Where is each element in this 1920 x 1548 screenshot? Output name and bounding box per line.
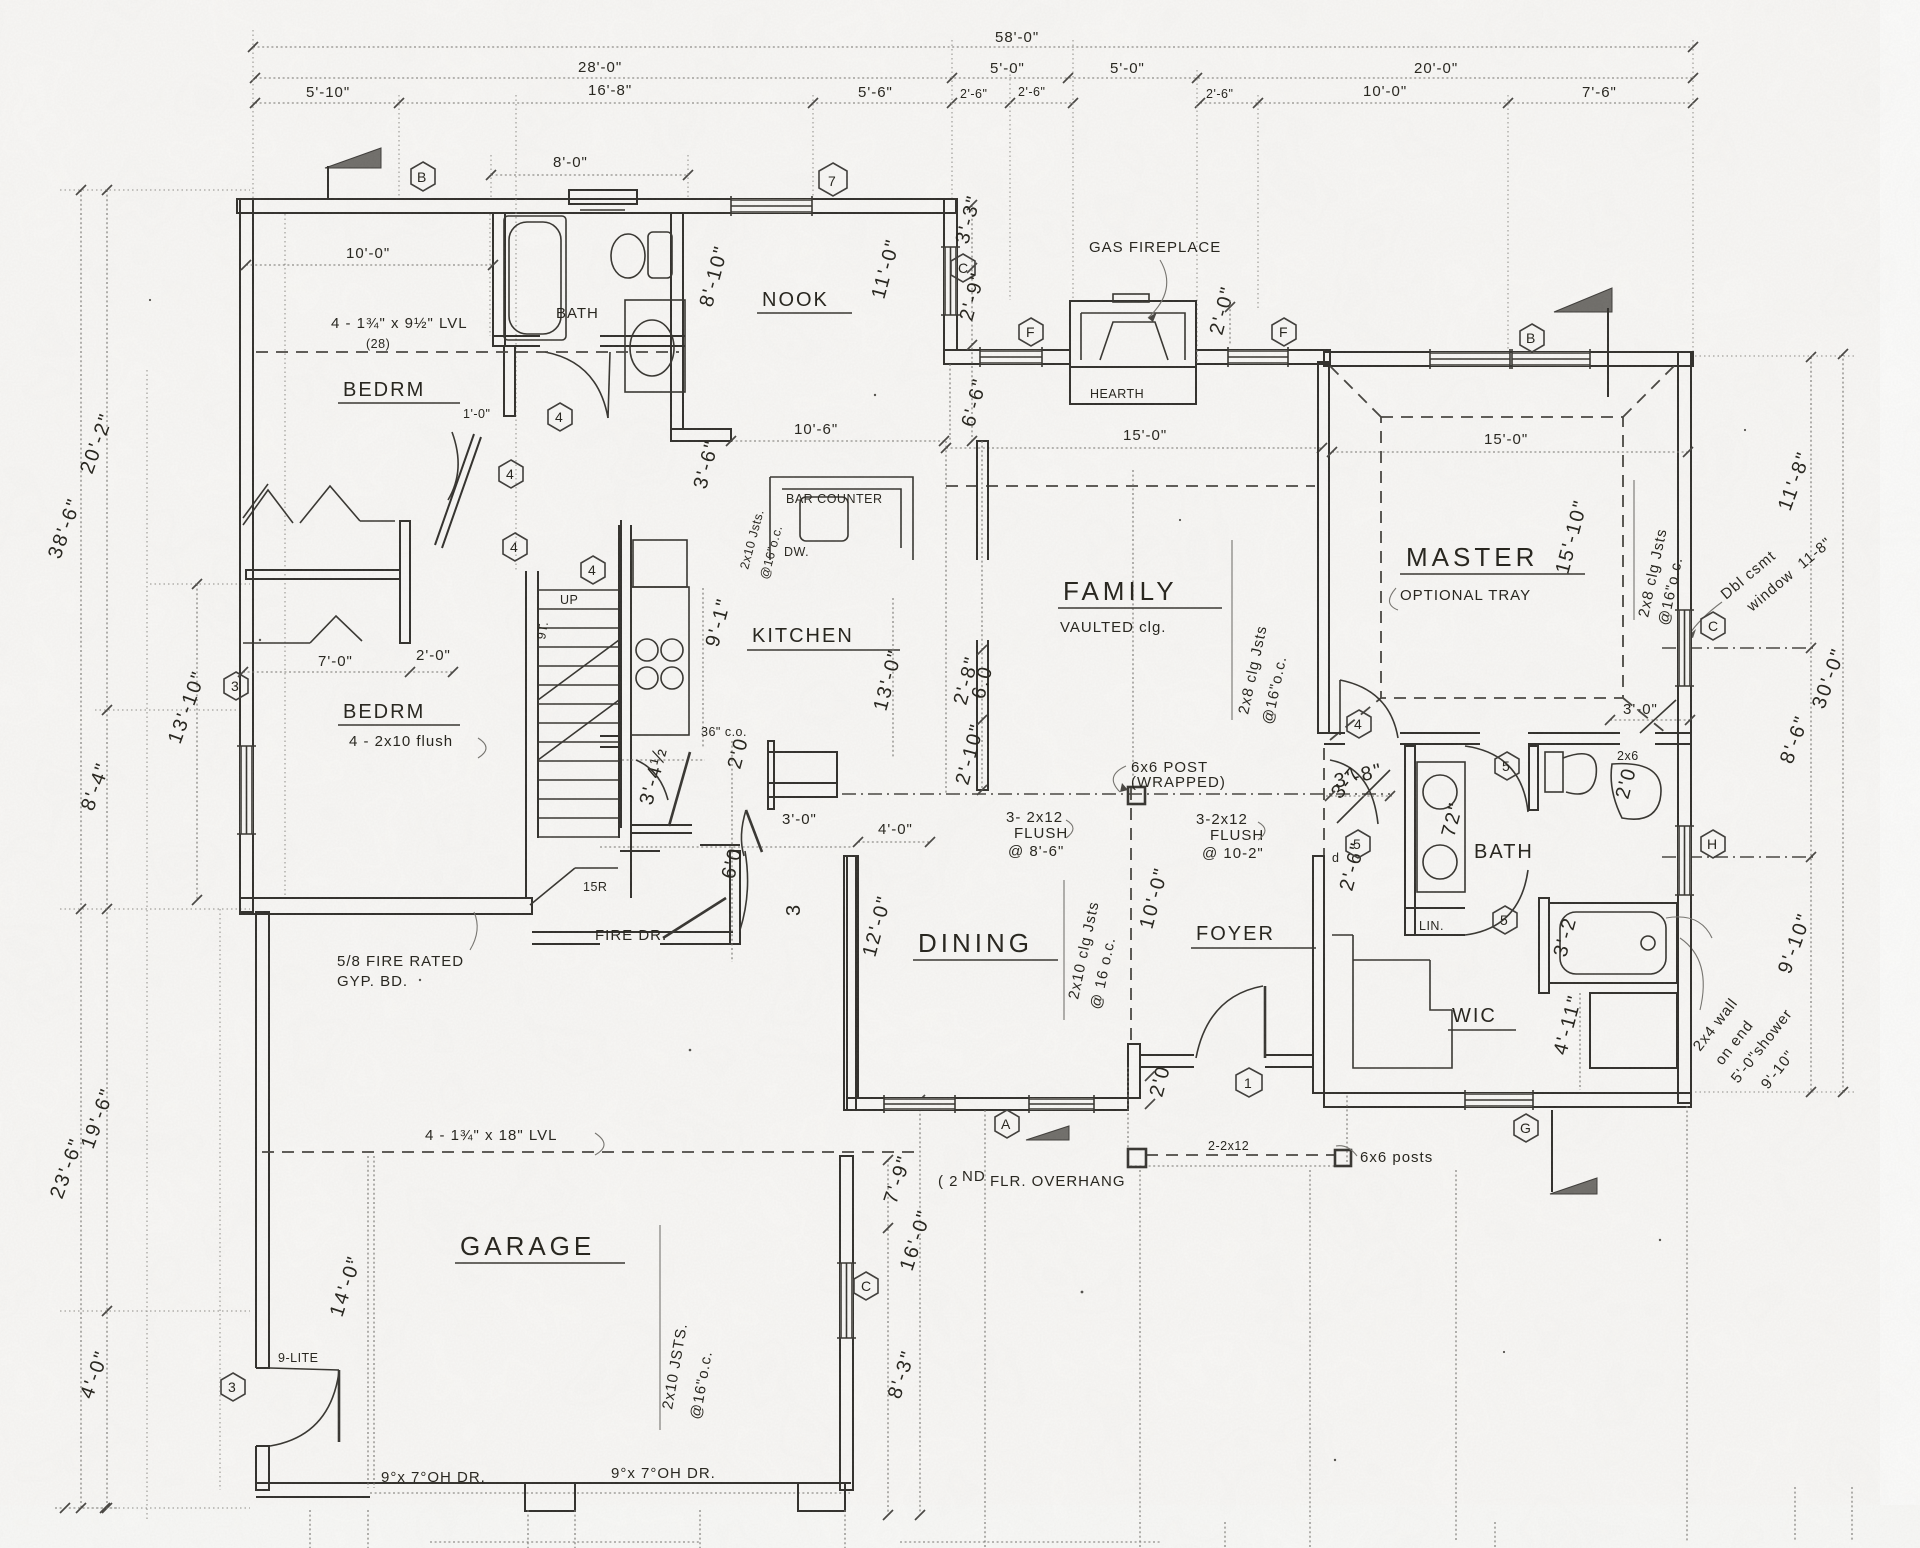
hex symbol B master top xyxy=(1520,324,1544,352)
label 6x6 posts with leader xyxy=(1336,1146,1433,1166)
bar counter xyxy=(770,477,913,560)
corner pantry xyxy=(631,752,692,833)
garage/dining shared wall vertical xyxy=(844,856,856,1110)
door arcs kitchen-dining passage xyxy=(718,735,837,962)
scan texture overlay xyxy=(0,0,1,1)
label 4-1.75x9.5 LVL (28) xyxy=(331,315,468,351)
label 2-0 rotated right of fireplace xyxy=(1206,283,1240,345)
projection stub lines bottom xyxy=(310,1106,1687,1548)
bottom left small dim xyxy=(55,1503,118,1513)
window bath right wall xyxy=(1678,826,1691,895)
label 6x6 post (wrapped) with leader xyxy=(1113,759,1226,792)
label optional tray xyxy=(1389,587,1531,610)
bath lower wall to nook xyxy=(671,429,731,441)
label 2nd flr overhang xyxy=(938,1168,1126,1190)
faint scan fold line xyxy=(146,370,148,1520)
bath right wall xyxy=(671,213,683,429)
hex symbol 3 garage door xyxy=(221,1373,245,1401)
dining left wall xyxy=(847,856,858,1098)
6x6 post wrapped xyxy=(1128,787,1145,804)
stairs xyxy=(526,525,631,898)
window garage right wall xyxy=(840,1263,853,1338)
label NOOK xyxy=(757,289,852,313)
bottom faint scan lines xyxy=(430,1541,1160,1543)
door arc to wic xyxy=(1465,870,1528,935)
foyer right wall xyxy=(1313,856,1324,1093)
fire door diagonal leaf xyxy=(663,898,726,938)
shaded section arrow top left xyxy=(325,148,381,199)
exterior wall garage bottom/front xyxy=(256,1483,851,1511)
dimension line 58-0 overall top xyxy=(248,29,1698,52)
hex symbol B top left xyxy=(411,162,435,191)
label 2-0 porch side xyxy=(1145,1063,1175,1109)
opening in divider xyxy=(973,560,992,640)
closet bifold bedroom2 xyxy=(243,616,362,643)
porch outline dashed xyxy=(1128,1067,1347,1166)
window WIC bottom xyxy=(1465,1093,1533,1107)
right extension lines xyxy=(1662,356,1855,1092)
beam dashed line over bedroom1 xyxy=(256,351,679,353)
dimension 13-10 interior left xyxy=(150,579,250,905)
label 2x10 JSTS @16oc garage rotated xyxy=(659,1225,716,1430)
dimension 7-0 / 2-0 bedroom2 xyxy=(238,647,458,677)
label 3-8 dim xyxy=(1325,759,1395,801)
label GARAGE xyxy=(455,1231,625,1263)
label 2x8 clg jsts master rotated xyxy=(1634,480,1686,627)
label 2x10 clg jsts dining rotated xyxy=(1064,880,1119,1020)
toilet bath1 xyxy=(611,232,672,278)
closet bifold doors bedroom1 hall zigzag xyxy=(243,486,395,525)
window nook top xyxy=(731,199,812,213)
nook side vertical dim 3-3 / 2-9 / 6-6 xyxy=(952,192,992,446)
dimension line second row: 28-0 / 5-0 / 5-0 / 20-0 xyxy=(250,59,1698,83)
kitchen family divider wall xyxy=(977,441,988,790)
label BEDRM 2 xyxy=(338,701,460,725)
porch post right xyxy=(1335,1150,1351,1166)
linen closet xyxy=(1405,908,1465,935)
wall master bedroom bottom xyxy=(1324,733,1690,744)
exterior wall bottom bedroom wing xyxy=(240,898,532,914)
shaded section arrow porch xyxy=(1026,1126,1069,1140)
hex symbol 5 bath top xyxy=(1495,752,1519,780)
hex symbol 1 foyer xyxy=(1236,1068,1262,1097)
dim line 13-0 kitchen xyxy=(892,598,894,758)
front door leaf and arc xyxy=(1196,986,1265,1058)
hex symbol 4 hall mid xyxy=(499,460,523,488)
label 2x8 clg Jsts @16 oc rotated xyxy=(1232,540,1290,726)
hall right wall xyxy=(730,851,740,944)
family left edge dashed xyxy=(945,441,947,794)
bath bottom wall xyxy=(493,335,540,337)
leader from tub to 2x4 note xyxy=(1666,917,1712,938)
master left wall xyxy=(1318,362,1329,733)
label 3-2x12 flush @10-2 xyxy=(1196,811,1265,862)
dimension 15-0 master xyxy=(1327,431,1693,457)
closet walls hall xyxy=(400,521,410,643)
window right of fireplace xyxy=(1228,350,1288,364)
window dining bottom 1 xyxy=(884,1098,955,1110)
foyer bottom wall with front door xyxy=(1140,1055,1313,1067)
dimension 10-6 nook bottom xyxy=(726,421,949,446)
exterior wall top of bedroom wing and nook xyxy=(237,199,956,213)
label WIC xyxy=(1448,1005,1516,1030)
garage side door opening 9-lite xyxy=(252,1368,274,1446)
hall closet left of bath xyxy=(1324,748,1390,893)
exterior wall master top xyxy=(1324,352,1693,366)
dimension 10-0 bedroom1 xyxy=(241,245,498,270)
window bedroom2 left wall xyxy=(240,746,253,834)
hex symbol C master window xyxy=(1701,612,1725,640)
hearth box xyxy=(1070,367,1196,404)
exterior wall left bedroom wing xyxy=(240,199,253,912)
dimension 15-0 family top xyxy=(941,427,1327,453)
left inner dimension line 20-2 / 8-4 / 19-6 / 4-0 xyxy=(76,185,119,1513)
toilet room master xyxy=(1529,746,1641,810)
hex symbol G xyxy=(1514,1114,1538,1142)
master door arc xyxy=(1340,680,1398,738)
family vaulted ceiling dashed line xyxy=(946,485,1315,487)
label DINING xyxy=(913,928,1058,960)
label MASTER xyxy=(1400,542,1585,574)
label FOYER xyxy=(1191,923,1316,948)
hex symbol C garage right xyxy=(854,1272,878,1300)
fire door wall xyxy=(532,932,733,944)
nook bottom dashed continuation xyxy=(949,364,951,441)
hex symbol F right xyxy=(1272,318,1296,346)
label 3-2x12 flush @8-6 xyxy=(1006,809,1073,860)
hall upper walls near kitchen xyxy=(620,845,805,930)
label BEDRM 1 xyxy=(338,379,460,403)
garage top beam dashed 4-1.75x18 LVL xyxy=(262,1151,918,1153)
garage right dimension 16-0 xyxy=(896,1095,936,1520)
master tray ceiling dashed xyxy=(1330,366,1674,740)
left extension lines xyxy=(60,190,250,1508)
hex symbol 4 hall lower xyxy=(503,533,527,561)
tub bedroom bath xyxy=(509,222,561,334)
note 2x4 wall on end 5-0 shower 9-10 xyxy=(1680,938,1798,1092)
kitchen lower wall xyxy=(600,735,621,737)
shower corner master xyxy=(1611,764,1661,820)
shower stall below tub xyxy=(1590,993,1677,1068)
exterior wall garage right xyxy=(840,1156,853,1490)
hall angled wall xyxy=(435,434,481,548)
chimney flue bump top wall xyxy=(569,190,637,210)
garage right dimension 7-9 / 8-3 xyxy=(880,1152,920,1520)
hex symbol 5 wic door xyxy=(1493,906,1517,934)
right inner dimension line 11-8 / 8-6 / 9-10 xyxy=(1774,352,1816,1097)
dotted vertical left of garage xyxy=(219,909,221,1490)
tub alcove master xyxy=(1539,898,1677,993)
hex symbol A porch xyxy=(995,1110,1019,1138)
family centerline dashed vertical xyxy=(1132,470,1134,790)
dim line 9-1 kitchen xyxy=(702,588,704,748)
bottom right stubs xyxy=(1794,1487,1796,1540)
bath left wall xyxy=(493,213,505,346)
hall dim dotted line xyxy=(600,846,852,848)
hex symbol 3 bedroom2 xyxy=(224,672,248,700)
window nook right wall xyxy=(944,247,957,315)
label 2x10 jsts kitchen rotated xyxy=(737,508,785,581)
gas fireplace assembly xyxy=(1070,294,1196,367)
door arc bath top xyxy=(1465,746,1528,812)
hall door arcs xyxy=(448,432,458,500)
exterior wall between fireplace and master xyxy=(1196,350,1330,364)
dimension 8-0 above bath window xyxy=(486,154,693,199)
label FAMILY xyxy=(1058,576,1222,608)
dimension 3-0 master closet xyxy=(1605,700,1695,733)
exterior wall family top left of fireplace xyxy=(944,350,1070,364)
shaded section arrow master top xyxy=(1554,288,1612,397)
foyer dashed dim 10-0 xyxy=(1131,788,1173,1044)
garage side door leaf and swing xyxy=(338,1370,341,1442)
label 5/8 fire rated gyp bd xyxy=(337,912,477,990)
construction dotted verticals bedroom wing xyxy=(284,214,286,898)
vanity counter two sinks xyxy=(1417,762,1468,892)
label GAS FIREPLACE with leader xyxy=(1089,239,1221,322)
wall stub below bath xyxy=(504,346,515,416)
hex symbol 5 hall xyxy=(1346,830,1370,858)
hex symbol 4 master door xyxy=(1347,710,1371,738)
beam dash-dot line family bottom xyxy=(842,793,1390,795)
label 4-11 rotated xyxy=(1550,992,1587,1090)
garage interior left wall dashed xyxy=(367,1156,369,1488)
hex symbol C nook xyxy=(951,254,975,282)
label KITCHEN xyxy=(747,625,900,650)
window master top double xyxy=(1430,352,1510,366)
porch post left xyxy=(1128,1149,1146,1167)
vanity sink bath1 xyxy=(625,300,685,392)
exterior wall right xyxy=(1678,352,1691,1103)
hex symbol F left xyxy=(1019,318,1043,346)
hex symbol 7 xyxy=(819,163,847,196)
vanity wall bath xyxy=(1405,746,1415,935)
dimension 4-0 dining top xyxy=(853,821,935,847)
hex symbol H xyxy=(1701,830,1725,858)
dashed line right of master window xyxy=(1196,350,1198,364)
window family top-left segment xyxy=(980,350,1042,364)
hex symbol 4 hall upper xyxy=(548,403,572,431)
shaded section arrow below wic xyxy=(1550,1110,1597,1194)
stair bottom guide lines xyxy=(530,868,618,905)
exterior wall garage left xyxy=(256,912,269,1490)
window dining bottom 2 xyxy=(1029,1098,1094,1110)
scan specks xyxy=(149,299,1746,1461)
divider dim labels 2-8 6.0 2-10 rotated xyxy=(950,645,998,795)
exterior wall nook right xyxy=(944,199,957,350)
note deck window 11-8 xyxy=(1688,534,1835,638)
kitchen counter left xyxy=(620,520,622,828)
window master right wall xyxy=(1678,610,1691,686)
exterior wall house bottom right section xyxy=(1324,1093,1691,1107)
WIC closet shelving xyxy=(1332,935,1452,1068)
dimension line third row: 5-10 / 16-8 / 5-6 / 2-6 / 2-6 / 2-6 / 10-0 / 7-6 xyxy=(250,82,1698,108)
top dimension extension lines xyxy=(253,30,1693,356)
dining bottom wall xyxy=(847,1098,1128,1110)
right outer dimension line 30-0 xyxy=(1808,349,1850,1097)
door arc bath hall xyxy=(545,352,608,418)
range cooktop xyxy=(631,540,689,735)
left outer dimension line 38-6 / 23-6 xyxy=(44,185,88,1513)
hex symbol 4 kitchen top xyxy=(581,556,605,584)
wall foyer to dining bottom connection xyxy=(1128,1044,1140,1098)
